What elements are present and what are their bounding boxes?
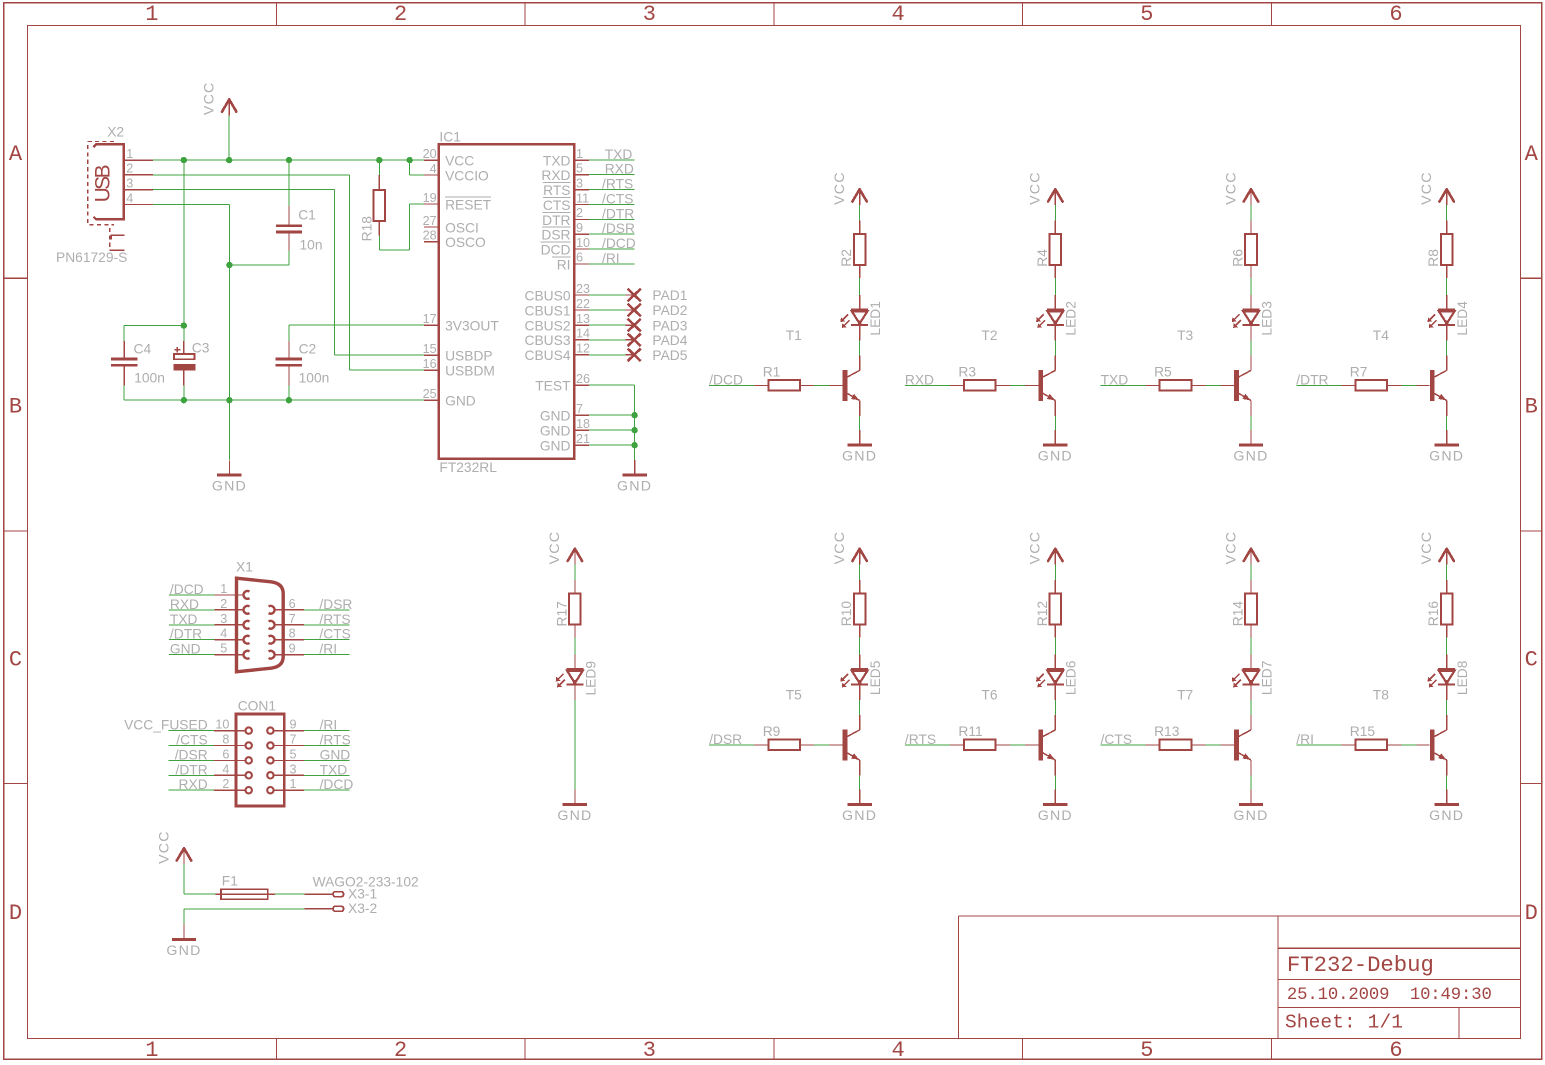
svg-text:6: 6: [1389, 2, 1402, 27]
svg-text:25: 25: [423, 387, 437, 401]
svg-text:/CTS: /CTS: [319, 627, 350, 642]
svg-text:R17: R17: [554, 601, 569, 626]
svg-text:C: C: [1525, 647, 1538, 672]
svg-text:/RTS: /RTS: [602, 177, 633, 192]
svg-text:/DSR: /DSR: [602, 221, 635, 236]
svg-text:LED1: LED1: [868, 301, 883, 336]
svg-text:/DSR: /DSR: [319, 597, 352, 612]
svg-text:C1: C1: [298, 208, 316, 223]
svg-text:R3: R3: [958, 365, 976, 380]
svg-text:R6: R6: [1231, 249, 1246, 267]
svg-text:1: 1: [220, 582, 227, 596]
svg-text:VCC: VCC: [156, 830, 172, 864]
svg-text:RESET: RESET: [445, 197, 492, 212]
svg-text:3: 3: [220, 612, 227, 626]
svg-text:FT232-Debug: FT232-Debug: [1287, 952, 1434, 978]
svg-text:GND: GND: [1429, 808, 1464, 824]
svg-text:/CTS: /CTS: [1101, 732, 1132, 747]
svg-text:7: 7: [290, 733, 297, 747]
svg-text:2: 2: [394, 1038, 407, 1063]
svg-text:2: 2: [220, 597, 227, 611]
svg-text:1: 1: [576, 147, 583, 161]
svg-text:4: 4: [892, 1038, 905, 1063]
svg-text:GND: GND: [842, 449, 877, 465]
svg-text:4: 4: [892, 2, 905, 27]
svg-text:FT232RL: FT232RL: [439, 460, 497, 475]
svg-text:100n: 100n: [134, 370, 165, 385]
svg-text:10n: 10n: [300, 238, 323, 253]
svg-text:/RTS: /RTS: [905, 732, 936, 747]
svg-text:CBUS4: CBUS4: [524, 348, 570, 363]
svg-text:5: 5: [1140, 2, 1153, 27]
svg-text:/DTR: /DTR: [602, 206, 634, 221]
svg-text:13: 13: [576, 312, 590, 326]
svg-text:8: 8: [289, 627, 296, 641]
svg-text:VCC: VCC: [1028, 531, 1044, 565]
svg-text:R9: R9: [763, 724, 781, 739]
svg-text:4: 4: [222, 762, 229, 776]
svg-text:VCC: VCC: [1419, 531, 1435, 565]
svg-text:12: 12: [576, 342, 590, 356]
svg-text:/DCD: /DCD: [709, 372, 743, 387]
svg-text:X2: X2: [107, 125, 124, 140]
svg-text:14: 14: [576, 327, 590, 341]
svg-text:10: 10: [576, 236, 590, 250]
svg-text:/DCD: /DCD: [320, 777, 354, 792]
svg-text:X1: X1: [236, 560, 253, 575]
svg-text:VCC: VCC: [832, 171, 848, 205]
svg-text:R11: R11: [958, 724, 982, 739]
svg-text:RXD: RXD: [170, 597, 199, 612]
svg-text:/RTS: /RTS: [319, 612, 350, 627]
svg-text:6: 6: [222, 747, 229, 761]
svg-text:T5: T5: [786, 688, 802, 703]
svg-text:1: 1: [290, 777, 297, 791]
svg-text:11: 11: [576, 191, 589, 205]
svg-text:GND: GND: [540, 409, 571, 424]
svg-text:RXD: RXD: [179, 777, 208, 792]
svg-text:/DTR: /DTR: [175, 762, 207, 777]
svg-text:F1: F1: [222, 874, 238, 889]
svg-text:RXD: RXD: [541, 168, 570, 183]
svg-text:6: 6: [576, 251, 583, 265]
svg-text:T3: T3: [1177, 328, 1193, 343]
svg-text:R2: R2: [839, 249, 854, 267]
svg-text:2: 2: [394, 2, 407, 27]
svg-text:C2: C2: [299, 341, 317, 356]
svg-text:4: 4: [430, 162, 437, 176]
svg-text:5: 5: [290, 747, 297, 761]
svg-text:LED9: LED9: [583, 661, 598, 696]
svg-text:6: 6: [1389, 1038, 1402, 1063]
svg-text:R15: R15: [1350, 724, 1376, 739]
svg-text:R7: R7: [1350, 365, 1368, 380]
svg-text:6: 6: [289, 597, 296, 611]
svg-text:19: 19: [423, 191, 437, 205]
svg-text:CBUS1: CBUS1: [524, 303, 570, 318]
svg-text:TEST: TEST: [535, 379, 571, 394]
svg-text:/CTS: /CTS: [176, 733, 207, 748]
svg-text:LED4: LED4: [1455, 301, 1470, 336]
svg-text:DCD: DCD: [541, 242, 571, 257]
svg-text:2: 2: [222, 777, 229, 791]
svg-text:R14: R14: [1231, 601, 1246, 627]
svg-text:T6: T6: [981, 688, 997, 703]
svg-text:GND: GND: [170, 642, 201, 657]
svg-text:T4: T4: [1373, 328, 1389, 343]
svg-text:/DSR: /DSR: [709, 732, 742, 747]
svg-text:GND: GND: [842, 808, 877, 824]
svg-text:GND: GND: [1038, 449, 1073, 465]
svg-text:5: 5: [576, 162, 583, 176]
svg-text:X3-2: X3-2: [348, 901, 377, 916]
svg-text:1: 1: [145, 1038, 158, 1063]
svg-text:VCC: VCC: [1028, 171, 1044, 205]
svg-text:1: 1: [126, 147, 133, 161]
svg-text:21: 21: [576, 432, 590, 446]
svg-text:LED8: LED8: [1455, 660, 1470, 695]
svg-text:VCC: VCC: [1223, 531, 1239, 565]
svg-text:Sheet: 1/1: Sheet: 1/1: [1285, 1012, 1403, 1034]
svg-text:/DTR: /DTR: [1296, 372, 1328, 387]
svg-text:R8: R8: [1426, 249, 1441, 267]
svg-text:25.10.2009 10:49:30: 25.10.2009 10:49:30: [1287, 986, 1492, 1005]
svg-text:7: 7: [289, 612, 296, 626]
svg-text:28: 28: [423, 228, 437, 242]
svg-text:R16: R16: [1426, 601, 1441, 627]
svg-text:TXD: TXD: [543, 154, 571, 169]
svg-text:3V3OUT: 3V3OUT: [445, 319, 499, 334]
svg-text:PAD4: PAD4: [652, 333, 687, 348]
svg-text:VCC: VCC: [202, 82, 218, 116]
svg-text:GND: GND: [1233, 449, 1268, 465]
svg-text:4: 4: [220, 627, 227, 641]
svg-text:GND: GND: [540, 439, 571, 454]
svg-text:/CTS: /CTS: [602, 192, 633, 207]
svg-text:CBUS2: CBUS2: [524, 319, 570, 334]
svg-text:GND: GND: [617, 479, 652, 495]
svg-text:3: 3: [643, 2, 656, 27]
svg-text:1: 1: [145, 2, 158, 27]
svg-text:GND: GND: [212, 479, 247, 495]
svg-text:R10: R10: [839, 601, 854, 627]
svg-text:USB: USB: [92, 164, 115, 202]
svg-text:GND: GND: [557, 808, 592, 824]
svg-text:/DTR: /DTR: [170, 627, 202, 642]
svg-text:/DCD: /DCD: [170, 582, 204, 597]
svg-text:DSR: DSR: [541, 228, 570, 243]
svg-text:GND: GND: [445, 394, 476, 409]
svg-text:C4: C4: [134, 341, 152, 356]
svg-text:7: 7: [576, 402, 583, 416]
svg-text:23: 23: [576, 282, 590, 296]
svg-text:R12: R12: [1035, 601, 1050, 626]
svg-text:3: 3: [576, 176, 583, 190]
svg-text:16: 16: [423, 357, 437, 371]
svg-text:17: 17: [423, 312, 437, 326]
svg-text:D: D: [1525, 901, 1538, 926]
svg-text:VCC: VCC: [832, 531, 848, 565]
svg-text:18: 18: [576, 417, 590, 431]
svg-text:PAD3: PAD3: [652, 318, 687, 333]
svg-text:VCC: VCC: [1419, 171, 1435, 205]
svg-text:B: B: [1525, 395, 1538, 420]
svg-text:A: A: [9, 142, 23, 167]
svg-text:/RTS: /RTS: [320, 733, 351, 748]
svg-text:B: B: [9, 395, 22, 420]
svg-text:9: 9: [576, 221, 583, 235]
svg-text:27: 27: [423, 214, 437, 228]
svg-text:WAGO2-233-102: WAGO2-233-102: [313, 875, 419, 890]
svg-text:TXD: TXD: [605, 147, 633, 162]
svg-text:VCC: VCC: [547, 531, 563, 565]
svg-text:RXD: RXD: [605, 162, 634, 177]
svg-text:2: 2: [576, 206, 583, 220]
svg-text:LED5: LED5: [868, 660, 883, 695]
svg-text:R5: R5: [1154, 365, 1172, 380]
svg-text:15: 15: [423, 342, 437, 356]
svg-text:GND: GND: [1233, 808, 1268, 824]
svg-text:C: C: [9, 647, 22, 672]
svg-text:20: 20: [423, 147, 437, 161]
svg-text:/DCD: /DCD: [602, 236, 636, 251]
svg-text:T2: T2: [981, 328, 997, 343]
svg-text:C3: C3: [192, 341, 210, 356]
svg-text:22: 22: [576, 297, 590, 311]
svg-text:3: 3: [126, 176, 133, 190]
svg-text:GND: GND: [1429, 449, 1464, 465]
svg-text:LED6: LED6: [1064, 660, 1079, 695]
svg-text:PN61729-S: PN61729-S: [56, 250, 127, 265]
svg-text:/RI: /RI: [320, 718, 338, 733]
svg-text:USBDM: USBDM: [445, 364, 495, 379]
svg-text:VCCIO: VCCIO: [445, 168, 489, 183]
svg-text:/RI: /RI: [602, 251, 620, 266]
svg-text:D: D: [9, 901, 22, 926]
svg-text:GND: GND: [320, 747, 351, 762]
svg-text:LED3: LED3: [1259, 301, 1274, 336]
svg-text:TXD: TXD: [320, 762, 348, 777]
svg-text:CBUS0: CBUS0: [524, 288, 570, 303]
svg-text:RTS: RTS: [543, 183, 570, 198]
svg-text:9: 9: [289, 642, 296, 656]
svg-text:/RI: /RI: [319, 642, 337, 657]
svg-text:CON1: CON1: [238, 699, 276, 714]
svg-text:2: 2: [126, 162, 133, 176]
svg-text:RXD: RXD: [905, 372, 934, 387]
svg-text:OSCI: OSCI: [445, 220, 479, 235]
svg-text:T8: T8: [1373, 688, 1389, 703]
svg-text:5: 5: [220, 642, 227, 656]
svg-text:T7: T7: [1177, 688, 1193, 703]
svg-text:100n: 100n: [299, 370, 330, 385]
svg-text:PAD1: PAD1: [652, 288, 687, 303]
svg-text:PAD5: PAD5: [652, 348, 687, 363]
svg-text:/RI: /RI: [1296, 732, 1314, 747]
svg-text:GND: GND: [166, 943, 201, 959]
svg-text:DTR: DTR: [542, 213, 570, 228]
svg-text:PAD2: PAD2: [652, 303, 687, 318]
svg-text:9: 9: [290, 718, 297, 732]
svg-text:RI: RI: [557, 257, 571, 272]
svg-text:VCC: VCC: [1223, 171, 1239, 205]
svg-text:3: 3: [643, 1038, 656, 1063]
svg-text:5: 5: [1140, 1038, 1153, 1063]
svg-text:GND: GND: [1038, 808, 1073, 824]
svg-text:GND: GND: [540, 424, 571, 439]
svg-text:TXD: TXD: [170, 612, 198, 627]
svg-text:R18: R18: [360, 216, 375, 242]
svg-text:USBDP: USBDP: [445, 349, 493, 364]
svg-text:CTS: CTS: [543, 198, 571, 213]
svg-text:10: 10: [215, 718, 229, 732]
svg-text:8: 8: [222, 733, 229, 747]
svg-text:/DSR: /DSR: [175, 747, 208, 762]
svg-text:VCC_FUSED: VCC_FUSED: [124, 718, 208, 733]
svg-text:R1: R1: [763, 365, 781, 380]
svg-text:LED7: LED7: [1259, 661, 1274, 696]
svg-text:CBUS3: CBUS3: [524, 333, 570, 348]
svg-text:26: 26: [576, 372, 590, 386]
svg-text:3: 3: [290, 762, 297, 776]
svg-text:R13: R13: [1154, 724, 1180, 739]
svg-text:R4: R4: [1035, 249, 1050, 267]
svg-text:4: 4: [126, 191, 133, 205]
svg-text:A: A: [1525, 142, 1539, 167]
svg-text:IC1: IC1: [439, 129, 460, 144]
svg-text:OSCO: OSCO: [445, 235, 486, 250]
svg-text:LED2: LED2: [1064, 301, 1079, 336]
svg-text:T1: T1: [786, 328, 802, 343]
svg-text:VCC: VCC: [445, 154, 474, 169]
svg-text:TXD: TXD: [1101, 372, 1129, 387]
